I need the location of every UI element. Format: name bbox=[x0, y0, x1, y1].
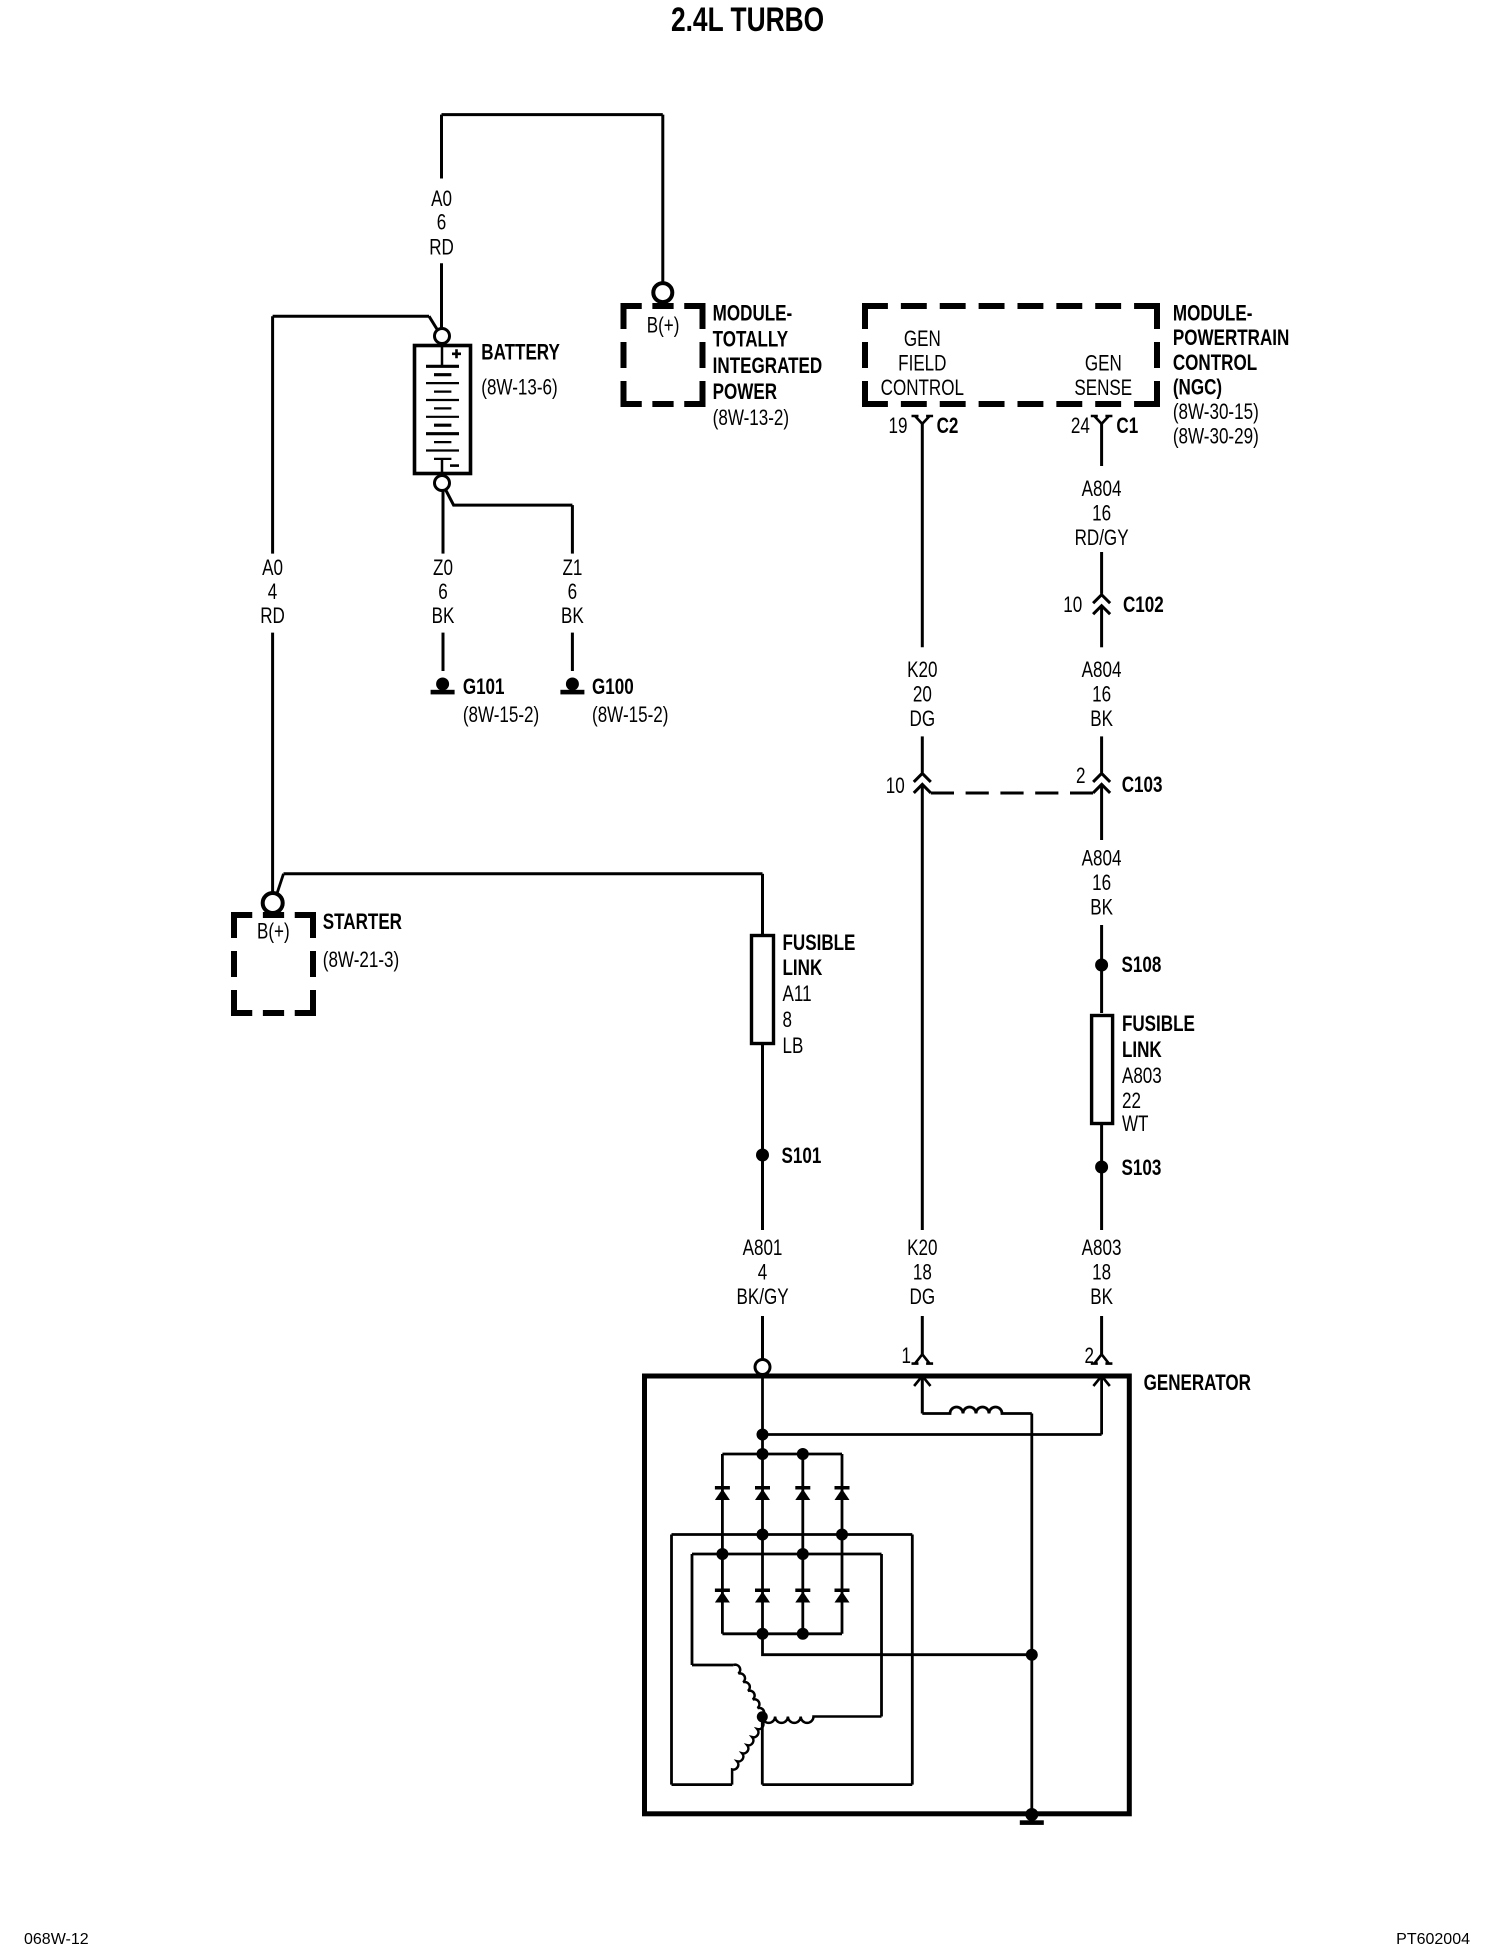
wire drop to fusible link A11 bbox=[761, 874, 764, 934]
svg-text:1: 1 bbox=[902, 1344, 911, 1369]
generator B+ terminal ring bbox=[755, 1360, 770, 1375]
wire K20 to generator pin 1 bbox=[921, 1316, 924, 1354]
junction B+ and sense bbox=[757, 1429, 769, 1441]
svg-text:BK: BK bbox=[1090, 1285, 1113, 1310]
svg-text:B(+): B(+) bbox=[647, 314, 680, 339]
svg-text:A801: A801 bbox=[743, 1236, 783, 1261]
wire stator center tap down bbox=[761, 1717, 764, 1785]
svg-text:B(+): B(+) bbox=[257, 919, 290, 944]
wire bottom bus to ground node bbox=[763, 1634, 1032, 1655]
wire Z0 upper segment bbox=[442, 491, 445, 554]
fusible link A11 element bbox=[752, 936, 774, 1044]
svg-text:BATTERY: BATTERY bbox=[481, 340, 560, 365]
svg-text:DG: DG bbox=[910, 1285, 936, 1310]
battery BATTERY outline box bbox=[415, 346, 471, 474]
wire rectifier bottom bus bbox=[722, 1632, 842, 1635]
wire diagonal into battery top ring bbox=[429, 316, 438, 330]
svg-text:GEN: GEN bbox=[904, 327, 941, 352]
svg-text:8: 8 bbox=[783, 1008, 793, 1033]
svg-text:10: 10 bbox=[1063, 593, 1082, 618]
svg-text:20: 20 bbox=[913, 682, 932, 707]
svg-text:(8W-30-15): (8W-30-15) bbox=[1173, 400, 1259, 425]
svg-text:2.4L TURBO: 2.4L TURBO bbox=[671, 1, 824, 39]
svg-text:A804: A804 bbox=[1082, 658, 1122, 683]
battery negative stem bbox=[441, 459, 444, 474]
wire stator outer right bbox=[911, 1535, 914, 1785]
diode D7 bbox=[795, 1589, 810, 1603]
svg-text:CONTROL: CONTROL bbox=[881, 376, 964, 401]
box GENERATOR bbox=[645, 1376, 1130, 1814]
connector C103 pin 10 chevrons (field) bbox=[914, 773, 931, 793]
connector ring TIPM B(+) terminal bbox=[653, 283, 672, 302]
svg-text:CONTROL: CONTROL bbox=[1173, 351, 1257, 376]
svg-text:G100: G100 bbox=[592, 675, 634, 700]
svg-text:FUSIBLE: FUSIBLE bbox=[783, 931, 856, 956]
wire rectifier branch 3 bbox=[801, 1454, 804, 1634]
svg-text:S108: S108 bbox=[1122, 953, 1162, 978]
svg-text:C1: C1 bbox=[1116, 414, 1138, 439]
battery bottom terminal ring bbox=[435, 476, 450, 491]
wire A803 to splice S103 bbox=[1100, 1124, 1103, 1231]
svg-text:S103: S103 bbox=[1122, 1156, 1162, 1181]
svg-text:A0: A0 bbox=[431, 187, 452, 212]
svg-text:A11: A11 bbox=[783, 982, 812, 1007]
svg-text:STARTER: STARTER bbox=[323, 910, 402, 935]
junction branch1 stator tap bbox=[716, 1548, 728, 1560]
connector Y pin 19 of C2 bbox=[912, 416, 934, 424]
svg-text:16: 16 bbox=[1092, 871, 1111, 896]
wire rectifier branch 1 bbox=[721, 1454, 724, 1634]
svg-text:4: 4 bbox=[758, 1260, 768, 1285]
wire A804 to C102 bbox=[1100, 552, 1103, 594]
svg-text:WT: WT bbox=[1122, 1112, 1149, 1137]
svg-text:FUSIBLE: FUSIBLE bbox=[1122, 1012, 1195, 1037]
svg-text:(NGC): (NGC) bbox=[1173, 375, 1222, 400]
wire A804 below C103 bbox=[1100, 784, 1103, 840]
connector C103 pin 2 chevrons (sense) bbox=[1093, 773, 1110, 793]
wire stator inner bottom-left bbox=[692, 1664, 734, 1667]
svg-text:C103: C103 bbox=[1122, 773, 1163, 798]
svg-text:2: 2 bbox=[1085, 1344, 1094, 1369]
wire stator inner left bbox=[691, 1554, 694, 1665]
svg-text:LINK: LINK bbox=[1122, 1038, 1162, 1063]
arrow into generator pin 1 bbox=[914, 1376, 930, 1386]
diode D2 bbox=[755, 1486, 770, 1500]
connector ring STARTER B(+) terminal bbox=[263, 893, 283, 913]
svg-text:Z1: Z1 bbox=[562, 556, 582, 581]
wire starter horizontal to fusible link bbox=[284, 872, 763, 875]
box STARTER (dashed) bbox=[231, 912, 316, 1016]
svg-text:DG: DG bbox=[910, 707, 936, 732]
svg-text:4: 4 bbox=[268, 580, 278, 605]
svg-text:RD: RD bbox=[260, 604, 285, 629]
svg-text:6: 6 bbox=[438, 580, 448, 605]
field coil (rotor winding) bbox=[922, 1407, 1032, 1414]
svg-text:16: 16 bbox=[1092, 682, 1111, 707]
wire stator outer top bbox=[672, 1533, 913, 1536]
ground G101 symbol bbox=[431, 678, 455, 695]
svg-text:16: 16 bbox=[1092, 501, 1111, 526]
diode D1 bbox=[715, 1486, 730, 1500]
wire K20 to C103 bbox=[921, 736, 924, 772]
junction bottom bus right-center bbox=[797, 1628, 809, 1640]
splice S101 bbox=[756, 1149, 769, 1162]
svg-text:LINK: LINK bbox=[783, 956, 823, 981]
wire sense inside generator bbox=[1100, 1376, 1103, 1435]
ground generator internal bbox=[1020, 1808, 1044, 1825]
svg-text:RD: RD bbox=[429, 235, 454, 260]
svg-text:G101: G101 bbox=[463, 675, 505, 700]
wire A0-6-RD upper vertical segment bbox=[440, 115, 443, 179]
svg-text:C2: C2 bbox=[937, 414, 959, 439]
svg-text:MODULE-: MODULE- bbox=[713, 302, 793, 327]
box MODULE-TOTALLY INTEGRATED POWER (dashed) bbox=[621, 303, 706, 407]
fusible link A803 element bbox=[1092, 1016, 1113, 1124]
wire A804 from C1 down bbox=[1100, 424, 1103, 466]
wire sense horizontal to B+ node bbox=[763, 1433, 1102, 1436]
svg-text:A0: A0 bbox=[262, 556, 283, 581]
connector lambda generator pin 2 bbox=[1091, 1354, 1113, 1363]
junction stator star point bbox=[757, 1711, 768, 1722]
wire A0-4-RD lower segment bbox=[271, 633, 274, 892]
svg-text:TOTALLY: TOTALLY bbox=[713, 328, 788, 353]
wire B+ vertical into rectifier bbox=[761, 1376, 764, 1454]
battery internal plates bbox=[426, 366, 459, 459]
diode D5 bbox=[715, 1589, 730, 1603]
svg-text:PT602004: PT602004 bbox=[1396, 1931, 1470, 1946]
svg-text:A804: A804 bbox=[1082, 846, 1122, 871]
wire A804 to splice S108 and fusible link bbox=[1100, 925, 1103, 1013]
svg-text:SENSE: SENSE bbox=[1074, 376, 1132, 401]
connector Y pin 24 of C1 bbox=[1091, 416, 1113, 424]
svg-text:A803: A803 bbox=[1082, 1236, 1122, 1261]
wire Z1 lower segment bbox=[571, 633, 574, 671]
svg-text:BK/GY: BK/GY bbox=[736, 1285, 788, 1310]
diode D4 bbox=[835, 1486, 850, 1500]
svg-text:K20: K20 bbox=[907, 1236, 937, 1261]
svg-text:068W-12: 068W-12 bbox=[24, 1931, 89, 1946]
svg-text:(8W-13-2): (8W-13-2) bbox=[713, 406, 789, 431]
wire rectifier branch 4 bbox=[841, 1454, 844, 1634]
stator winding phase A (diagonal) bbox=[734, 1665, 765, 1717]
svg-text:BK: BK bbox=[1090, 895, 1113, 920]
svg-text:A803: A803 bbox=[1122, 1064, 1162, 1089]
junction top bus center bbox=[757, 1448, 769, 1460]
stator winding phase B (horizontal coil) bbox=[762, 1717, 881, 1723]
svg-text:RD/GY: RD/GY bbox=[1075, 526, 1129, 551]
svg-text:(8W-13-6): (8W-13-6) bbox=[481, 375, 557, 400]
svg-text:Z0: Z0 bbox=[433, 556, 453, 581]
wire A803 to generator pin 2 bbox=[1100, 1316, 1103, 1354]
svg-text:K20: K20 bbox=[907, 658, 937, 683]
svg-text:S101: S101 bbox=[782, 1144, 822, 1169]
wire diagonal from starter ring to fusible-link feed bbox=[277, 874, 284, 895]
wire A0-6-RD lower vertical segment bbox=[440, 263, 443, 328]
svg-text:6: 6 bbox=[568, 580, 578, 605]
svg-text:INTEGRATED: INTEGRATED bbox=[713, 354, 823, 379]
connector lambda generator pin 1 bbox=[912, 1354, 934, 1363]
wire stator outer bottom-right bbox=[762, 1783, 912, 1786]
arrow into generator pin 2 bbox=[1093, 1376, 1109, 1386]
svg-text:10: 10 bbox=[886, 774, 905, 799]
wire fusible link to splice S101 and below bbox=[761, 1044, 764, 1231]
svg-text:LB: LB bbox=[783, 1034, 804, 1059]
wire rectifier top bus bbox=[722, 1453, 842, 1456]
wire field inside generator bbox=[921, 1376, 924, 1414]
svg-text:FIELD: FIELD bbox=[898, 351, 946, 376]
wire stator inner top bbox=[692, 1553, 882, 1556]
svg-text:18: 18 bbox=[913, 1260, 932, 1285]
splice S108 bbox=[1095, 959, 1108, 972]
wire rectifier branch 2 bbox=[761, 1454, 764, 1634]
svg-text:POWERTRAIN: POWERTRAIN bbox=[1173, 326, 1289, 351]
svg-text:GEN: GEN bbox=[1085, 351, 1122, 376]
junction branch4 stator tap bbox=[836, 1529, 848, 1541]
wire top horizontal battery-to-TIPM bbox=[442, 113, 663, 116]
wire field coil to internal ground bbox=[1030, 1414, 1033, 1813]
wire stator outer bottom-left bbox=[672, 1783, 733, 1786]
battery top terminal ring bbox=[435, 329, 450, 344]
svg-text:BK: BK bbox=[432, 604, 455, 629]
diode D8 bbox=[835, 1589, 850, 1603]
battery plus sign bbox=[452, 349, 461, 358]
wire drop to TIPM B(+) ring bbox=[661, 115, 664, 283]
wire Z1 branch diagonal+horizontal bbox=[446, 491, 572, 506]
junction top bus right-center bbox=[797, 1448, 809, 1460]
battery positive stem bbox=[441, 346, 444, 367]
svg-text:(8W-15-2): (8W-15-2) bbox=[463, 703, 539, 728]
svg-text:A804: A804 bbox=[1082, 477, 1122, 502]
wire A804 to C103 bbox=[1100, 736, 1103, 772]
ground G100 symbol bbox=[560, 678, 584, 695]
junction branch3 stator tap bbox=[797, 1548, 809, 1560]
wire battery-to-starter branch horizontal bbox=[273, 315, 429, 318]
svg-text:BK: BK bbox=[1090, 707, 1113, 732]
stator winding phase C (diagonal) bbox=[732, 1721, 763, 1785]
svg-text:24: 24 bbox=[1071, 414, 1090, 439]
box MODULE-POWERTRAIN CONTROL NGC (dashed) bbox=[862, 303, 1160, 407]
svg-text:MODULE-: MODULE- bbox=[1173, 302, 1253, 327]
junction field-ground wire with stator output bbox=[1026, 1649, 1038, 1661]
svg-text:GENERATOR: GENERATOR bbox=[1144, 1371, 1251, 1396]
svg-text:19: 19 bbox=[889, 414, 908, 439]
wire K20 18 DG below C103 bbox=[921, 784, 924, 1230]
svg-text:BK: BK bbox=[561, 604, 584, 629]
diode D3 bbox=[795, 1486, 810, 1500]
wire stator outer left bbox=[670, 1535, 673, 1785]
svg-text:(8W-15-2): (8W-15-2) bbox=[592, 703, 668, 728]
wire stator inner right bbox=[880, 1554, 883, 1717]
svg-text:2: 2 bbox=[1076, 764, 1085, 789]
svg-text:C102: C102 bbox=[1123, 593, 1164, 618]
wire A0-4-RD upper segment bbox=[271, 316, 274, 553]
splice S103 bbox=[1095, 1161, 1108, 1174]
svg-text:(8W-30-29): (8W-30-29) bbox=[1173, 425, 1259, 450]
diode D6 bbox=[755, 1589, 770, 1603]
wire A801 to generator terminal bbox=[761, 1316, 764, 1359]
wire Z0 lower segment bbox=[442, 633, 445, 671]
wire A804 below C102 bbox=[1100, 606, 1103, 648]
svg-text:22: 22 bbox=[1122, 1089, 1141, 1114]
wire Z1 upper segment bbox=[571, 505, 574, 553]
junction bottom bus center bbox=[757, 1628, 769, 1640]
junction branch2 stator tap bbox=[757, 1529, 769, 1541]
connector C102 pin 10 chevrons bbox=[1093, 595, 1110, 615]
svg-text:POWER: POWER bbox=[713, 380, 777, 405]
svg-text:6: 6 bbox=[437, 210, 447, 235]
battery minus sign bbox=[450, 464, 459, 467]
svg-text:18: 18 bbox=[1092, 1260, 1111, 1285]
dashed connector line C103 bbox=[931, 792, 1093, 795]
wire K20 from C2 down bbox=[921, 424, 924, 648]
svg-text:(8W-21-3): (8W-21-3) bbox=[323, 948, 399, 973]
